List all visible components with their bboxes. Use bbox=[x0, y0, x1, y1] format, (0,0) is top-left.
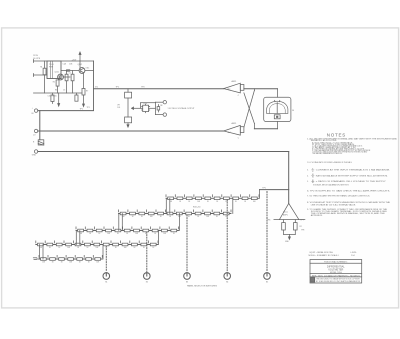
test point arrow TP1 bbox=[83, 95, 85, 107]
wire left bus bbox=[39, 111, 41, 140]
svg-text:60 CPS: 60 CPS bbox=[33, 58, 41, 60]
resistor R104 bbox=[71, 71, 74, 94]
wire Q102 collector to bus bbox=[85, 70, 94, 72]
svg-text:115V: 115V bbox=[33, 55, 38, 57]
svg-text:SERIAL NO. AS FOLLOWS:: SERIAL NO. AS FOLLOWS: bbox=[311, 139, 338, 142]
svg-text:R201-210: R201-210 bbox=[193, 206, 200, 208]
ground null detector bbox=[284, 234, 296, 239]
svg-text:MODEL 741A: MODEL 741A bbox=[330, 271, 342, 274]
svg-text:E1: E1 bbox=[312, 174, 314, 176]
resistor ladder row 4 bbox=[36, 241, 158, 246]
resistor ladder row 2 bbox=[119, 210, 232, 215]
svg-text:S4: S4 bbox=[226, 282, 228, 284]
svg-text:VOLTAGE, SET AT CALIBRATION. S: VOLTAGE, SET AT CALIBRATION. SEE TEXT. bbox=[313, 183, 350, 186]
svg-text:AMPL: AMPL bbox=[283, 214, 288, 217]
svg-text:1 KC NULL VOLTAGE OUTPUT: 1 KC NULL VOLTAGE OUTPUT bbox=[168, 107, 196, 110]
resistor ladder row 3 bbox=[76, 227, 179, 232]
svg-text:GRD: GRD bbox=[32, 154, 37, 156]
svg-text:R1: R1 bbox=[312, 180, 314, 182]
svg-text:R3: R3 bbox=[62, 76, 64, 78]
ground arrow bbox=[58, 93, 60, 106]
terminal GUARD bbox=[34, 150, 37, 153]
wire top rail bbox=[61, 61, 94, 111]
svg-text:NULL: NULL bbox=[283, 212, 288, 214]
svg-text:+20V: +20V bbox=[72, 59, 77, 61]
svg-text:2. D-C VOLTAGE RATIO OF DIVID: 2. D-C VOLTAGE RATIO OF DIVIDER = READIN… bbox=[307, 161, 352, 164]
wire 115V line input top bbox=[34, 60, 48, 77]
wire ground rail bbox=[34, 92, 83, 94]
resistor R102 bbox=[56, 80, 59, 93]
wire null signal down bbox=[288, 152, 290, 204]
capacitor C101 bbox=[63, 70, 70, 77]
svg-text:THE MANUAL, PARAGRAPHS III-2 A: THE MANUAL, PARAGRAPHS III-2 AND III-4 bbox=[312, 152, 342, 155]
resistor ladder row 5 bbox=[39, 255, 102, 260]
transistor Q101 bbox=[58, 74, 64, 80]
svg-text:TP6: TP6 bbox=[267, 219, 270, 221]
wire switch shaft dashed 4 bbox=[226, 200, 228, 272]
switch knob S3 bbox=[184, 273, 191, 280]
svg-text:TP7: TP7 bbox=[300, 220, 303, 222]
svg-text:SER. NOS. 101 AND UP, PATENT: SER. NOS. 101 AND UP, PATENTS + MODELS bbox=[312, 274, 361, 277]
svg-text:S2: S2 bbox=[146, 282, 148, 284]
svg-text:TP1: TP1 bbox=[87, 107, 90, 109]
svg-text:R2: R2 bbox=[53, 81, 55, 83]
op-amp A1 top bbox=[224, 83, 244, 93]
op-amp A2 bottom bbox=[224, 125, 244, 135]
svg-text:TP8: TP8 bbox=[301, 229, 304, 231]
switch knob S2 bbox=[144, 273, 151, 280]
svg-text:Y101: Y101 bbox=[143, 103, 147, 105]
ground ladder start bbox=[33, 258, 39, 260]
svg-text:2-54: 2-54 bbox=[351, 255, 355, 257]
svg-text:R8: R8 bbox=[160, 105, 162, 107]
wire amp A1 to meter bbox=[244, 89, 278, 98]
chassis ground bbox=[38, 140, 44, 145]
svg-text:TP2: TP2 bbox=[116, 87, 119, 89]
svg-text:R7: R7 bbox=[86, 91, 88, 93]
op-amp U3 null detector bbox=[279, 203, 299, 219]
switch knob S4 bbox=[224, 273, 231, 280]
wire switch shaft dashed 5 bbox=[266, 192, 268, 272]
wire ladder links bbox=[40, 198, 233, 259]
svg-text:FUNCTIONAL SCHEMATIC: FUNCTIONAL SCHEMATIC bbox=[324, 261, 348, 264]
svg-text:Q102: Q102 bbox=[78, 64, 82, 66]
svg-text:C1: C1 bbox=[69, 73, 71, 75]
title block frame bbox=[310, 260, 362, 284]
svg-text:E2: E2 bbox=[312, 177, 314, 179]
svg-text:LINE VOLTAGE AT 115 V A-C NOMI: LINE VOLTAGE AT 115 V A-C NOMINAL VALUE. bbox=[311, 203, 357, 206]
svg-text:L-DWG: L-DWG bbox=[350, 252, 357, 254]
svg-text:101: 101 bbox=[117, 107, 120, 109]
wire oscillator output rail bbox=[94, 88, 224, 90]
svg-text:PANEL SELECTOR SWITCHES: PANEL SELECTOR SWITCHES bbox=[187, 284, 217, 287]
resistor ladder row 1 bbox=[166, 195, 259, 200]
svg-text:AMPL: AMPL bbox=[232, 122, 237, 125]
crystal Y101 bbox=[142, 104, 150, 113]
svg-text:TP5: TP5 bbox=[262, 188, 265, 190]
wire LO line to null amp bbox=[38, 130, 224, 132]
svg-text:E: E bbox=[312, 168, 313, 170]
svg-text:Q101: Q101 bbox=[55, 72, 59, 74]
wire switch shaft dashed 2 bbox=[146, 232, 148, 272]
switch knob S1 bbox=[103, 273, 110, 280]
svg-text:CURRENT AT THE INPUT TERMINALS: CURRENT AT THE INPUT TERMINALS IS 1 MA M… bbox=[316, 169, 391, 172]
svg-text:R6: R6 bbox=[55, 90, 57, 92]
potentiometer VR101 bbox=[125, 89, 143, 127]
svg-text:TP3: TP3 bbox=[141, 87, 144, 89]
svg-text:S1: S1 bbox=[105, 282, 107, 284]
wire HI input line bbox=[38, 110, 94, 112]
svg-text:= RATIO OF STANDARD CELL VOLTA: = RATIO OF STANDARD CELL VOLTAGE TO THE … bbox=[316, 180, 387, 183]
wire base bias bbox=[61, 61, 80, 71]
resistor R105 bbox=[51, 93, 54, 104]
svg-text:R2: R2 bbox=[300, 226, 302, 228]
transformer T101 bbox=[47, 61, 61, 79]
switch knob S5 bbox=[264, 273, 271, 280]
svg-text:S3: S3 bbox=[186, 282, 188, 284]
wire switch shaft dashed 1 bbox=[105, 246, 107, 272]
power +20V arrow bbox=[79, 52, 81, 61]
svg-text:PWR: PWR bbox=[49, 67, 54, 69]
wire guard line bbox=[38, 151, 289, 153]
resistor R106 bbox=[75, 93, 78, 101]
terminal HI bbox=[34, 109, 37, 112]
svg-text:TP1: TP1 bbox=[80, 109, 83, 111]
svg-text:C3: C3 bbox=[63, 90, 65, 92]
svg-text:6. TP2 IS SUPPLIED TO GAIN CH: 6. TP2 IS SUPPLIED TO GAIN CHECK THE A-C… bbox=[307, 190, 391, 193]
terminal LO bbox=[34, 129, 37, 132]
wire crystal bypass loop bbox=[141, 102, 156, 114]
wire crossover bbox=[244, 89, 278, 129]
resistor R103 bbox=[65, 71, 68, 94]
svg-text:RATIO AT BALANCE WITH REF SUPP: RATIO AT BALANCE WITH REF SUPPLY GIVES N… bbox=[316, 174, 389, 177]
resistor R131 bbox=[294, 220, 298, 235]
svg-text:S5: S5 bbox=[266, 282, 268, 284]
resistor R110 bbox=[157, 105, 160, 113]
transistor Q102 bbox=[79, 68, 85, 74]
svg-text:APPENDIX.: APPENDIX. bbox=[311, 214, 324, 217]
svg-text:C102 R105: C102 R105 bbox=[48, 96, 57, 98]
resistor R130 bbox=[282, 220, 286, 235]
resistor R101 bbox=[43, 61, 46, 93]
svg-text:NOTES: NOTES bbox=[327, 133, 346, 138]
wire null det stubs bbox=[274, 219, 305, 221]
svg-text:MODEL + SCHEMATIC NO 741A-B-1: MODEL + SCHEMATIC NO 741A-B-1 bbox=[309, 254, 339, 257]
meter M101 bbox=[264, 97, 291, 121]
terminal ref lo bbox=[155, 113, 166, 116]
svg-text:7. S1 THRU S5 ARE THE FRONT P: 7. S1 THRU S5 ARE THE FRONT PANEL DECADE… bbox=[307, 195, 371, 198]
terminal ref hi bbox=[155, 101, 166, 104]
resistor R107 bbox=[82, 73, 85, 95]
svg-text:AMPL: AMPL bbox=[232, 80, 237, 83]
wire switch shaft dashed 3 bbox=[186, 215, 188, 272]
svg-text:EQUIP + SERIAL NOS 741A: EQUIP + SERIAL NOS 741A bbox=[310, 251, 334, 254]
svg-text:R1: R1 bbox=[40, 67, 42, 69]
wire divider output link bbox=[260, 190, 289, 199]
